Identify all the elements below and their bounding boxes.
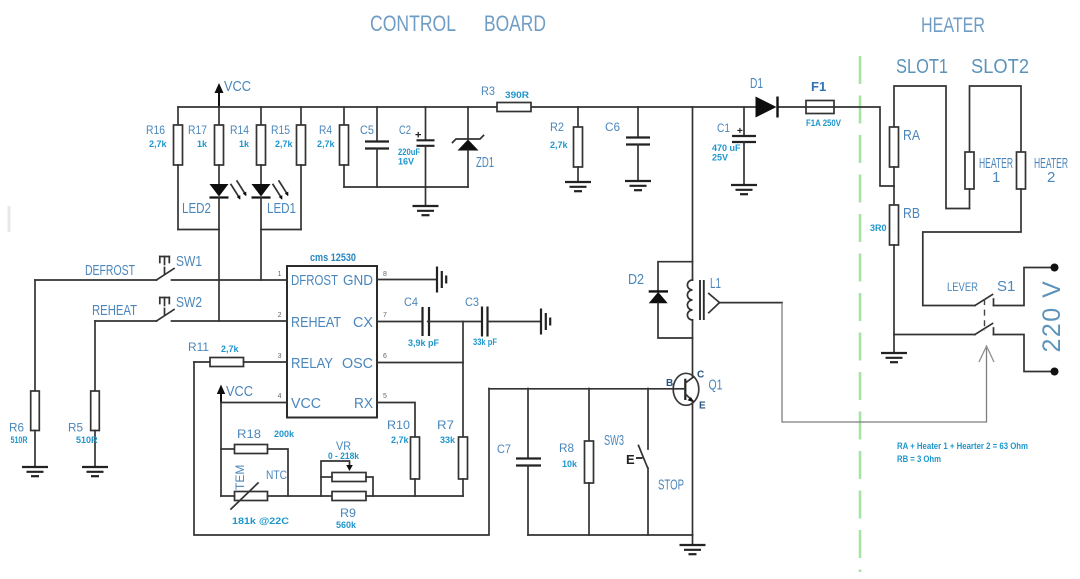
svg-text:R8: R8 — [559, 441, 574, 455]
wire main vertical bus to relay — [692, 107, 694, 280]
capacitor C6 — [605, 107, 650, 181]
IC pin label DFROST pin 1 — [278, 271, 338, 289]
potentiometer VR — [321, 439, 373, 496]
wire D2 bottom branch — [658, 303, 693, 338]
svg-text:R10: R10 — [387, 418, 410, 432]
svg-text:181k @22C: 181k @22C — [232, 516, 290, 526]
ground under R6 — [22, 467, 48, 476]
wire SW1 to DFROST pin 1 — [172, 279, 288, 281]
capacitor C4 — [404, 295, 440, 348]
capacitor C2 electrolytic — [398, 107, 435, 187]
resistor R9 — [332, 492, 366, 531]
ground under C2 rail — [413, 187, 439, 215]
svg-text:16V: 16V — [398, 157, 414, 167]
wire lower pole to terminal — [994, 335, 1053, 372]
svg-text:cms 12530: cms 12530 — [310, 252, 356, 264]
svg-text:LED1: LED1 — [267, 200, 296, 217]
capacitor C1 electrolytic — [712, 107, 756, 185]
svg-text:TEM: TEM — [233, 465, 247, 490]
arrow lever actuator — [979, 346, 994, 362]
wire filter bottom rail — [344, 186, 468, 188]
power symbol VCC top — [215, 78, 252, 107]
switch S1 lower pole — [975, 324, 994, 335]
svg-text:510R: 510R — [76, 435, 98, 445]
wire VCC stem down to sensor rail — [220, 403, 222, 497]
wire sensor rail segment 3 — [366, 495, 463, 497]
wire CX junction down to R7 — [462, 322, 464, 438]
wire F1 to heater block — [834, 107, 894, 186]
switch linkage dashed — [984, 299, 986, 331]
svg-text:RA: RA — [903, 127, 920, 144]
svg-text:REHEAT: REHEAT — [92, 302, 137, 319]
resistor R5 — [68, 321, 99, 467]
svg-text:C6: C6 — [605, 120, 620, 134]
LED LED2 — [182, 181, 246, 217]
capacitor C3 — [465, 295, 497, 347]
switch S1 upper pole — [975, 295, 994, 306]
wire D2 top branch — [658, 262, 693, 292]
diode D1 — [750, 75, 778, 118]
wire RX pin to R10 — [377, 403, 415, 438]
switch SW1 defrost — [157, 253, 203, 280]
resistor RA — [890, 127, 921, 205]
svg-text:E: E — [699, 401, 706, 412]
svg-text:SW1: SW1 — [176, 253, 202, 270]
wire VCC pin 4 — [221, 402, 287, 404]
resistor R8 — [559, 389, 594, 536]
wire RB ground branch to lever — [894, 334, 975, 336]
svg-text:C5: C5 — [360, 123, 374, 137]
terminal dot upper — [1051, 264, 1059, 272]
wire lever linkage (thin) — [782, 303, 987, 422]
resistor R16 — [146, 107, 183, 230]
svg-text:C2: C2 — [399, 123, 411, 137]
svg-text:L1: L1 — [710, 275, 721, 292]
svg-text:2: 2 — [1047, 169, 1055, 186]
svg-text:R17: R17 — [188, 123, 207, 137]
svg-text:1: 1 — [992, 169, 1000, 186]
svg-text:VCC: VCC — [226, 383, 253, 400]
thermistor NTC TEM — [231, 465, 290, 526]
ground rotated at GND pin — [437, 267, 446, 293]
wire LED2 cathode down to REHEAT net — [218, 198, 220, 322]
svg-text:CONTROL: CONTROL — [370, 11, 456, 36]
resistor HEATER 1 — [965, 152, 1013, 209]
svg-text:2,7k: 2,7k — [550, 140, 569, 150]
svg-text:VCC: VCC — [224, 78, 251, 95]
LED LED1 — [252, 181, 297, 217]
capacitor C5 — [360, 107, 389, 187]
resistor R15 — [271, 107, 306, 230]
svg-text:C1: C1 — [717, 121, 730, 135]
svg-text:R3: R3 — [481, 84, 495, 98]
svg-text:DEFROST: DEFROST — [85, 262, 135, 279]
svg-text:R4: R4 — [319, 123, 332, 137]
svg-text:6: 6 — [383, 353, 387, 360]
IC pin label RX pin 5 — [354, 393, 387, 412]
svg-text:STOP: STOP — [658, 477, 684, 494]
svg-text:2: 2 — [278, 312, 282, 319]
svg-text:LED2: LED2 — [182, 200, 211, 217]
svg-text:560k: 560k — [336, 520, 357, 530]
svg-text:0 - 218k: 0 - 218k — [328, 451, 360, 461]
IC pin label CX pin 7 — [353, 312, 387, 331]
IC pin label OSC pin 6 — [342, 353, 387, 372]
resistor R18 — [221, 427, 295, 496]
svg-text:RA + Heater 1 + Hearter 2 = 63: RA + Heater 1 + Hearter 2 = 63 Ohm — [897, 441, 1028, 451]
svg-text:S1: S1 — [997, 278, 1015, 295]
svg-text:2,7k: 2,7k — [275, 139, 294, 149]
wire bottom right rail — [528, 534, 693, 536]
svg-text:DFROST: DFROST — [291, 272, 338, 289]
wire SLOT1 top rail — [894, 86, 970, 209]
svg-text:8: 8 — [383, 271, 387, 278]
resistor R3 — [481, 84, 531, 112]
relay contact armature — [709, 294, 720, 313]
resistor R10 — [387, 418, 420, 496]
ground under RB — [881, 335, 907, 363]
ground under C1 — [731, 185, 757, 194]
wire DEFROST left to SW1 — [35, 279, 157, 281]
svg-text:D1: D1 — [750, 75, 763, 92]
fuse F1 — [806, 79, 841, 128]
svg-text:VCC: VCC — [291, 395, 321, 412]
svg-text:NTC: NTC — [266, 468, 287, 482]
svg-text:25V: 25V — [712, 153, 728, 163]
wire C3 to ground — [488, 321, 542, 323]
svg-text:LEVER: LEVER — [947, 280, 978, 294]
svg-text:10k: 10k — [562, 459, 578, 469]
svg-text:GND: GND — [343, 272, 373, 289]
svg-text:220 V: 220 V — [1038, 280, 1066, 353]
svg-text:Q1: Q1 — [709, 377, 723, 394]
svg-text:OSC: OSC — [342, 355, 373, 372]
wire Q1 base line — [489, 388, 673, 390]
svg-text:R5: R5 — [68, 421, 83, 435]
svg-text:C: C — [697, 370, 704, 381]
svg-text:390R: 390R — [505, 90, 530, 100]
resistor R17 — [188, 107, 224, 184]
wire R16 bottom to LED2 branch — [178, 229, 219, 231]
svg-text:F1A 250V: F1A 250V — [806, 118, 841, 128]
svg-text:SLOT1: SLOT1 — [896, 56, 948, 78]
IC U1 cms 12530 — [287, 252, 377, 418]
svg-text:R15: R15 — [271, 123, 290, 137]
svg-text:RX: RX — [354, 395, 373, 412]
svg-text:3R0: 3R0 — [870, 223, 887, 233]
wire OSC pin to R7 branch — [377, 362, 463, 364]
svg-text:RB: RB — [903, 205, 920, 222]
wire Q1 emitter down — [692, 402, 694, 536]
resistor R14 — [230, 107, 266, 184]
power symbol VCC mid — [217, 383, 253, 403]
ground main bottom — [680, 535, 706, 554]
svg-text:2,7k: 2,7k — [391, 435, 410, 445]
svg-text:SLOT2: SLOT2 — [971, 56, 1029, 78]
svg-text:C4: C4 — [404, 295, 418, 309]
wire sensor rail segment 2 — [268, 495, 333, 497]
svg-text:220uF: 220uF — [398, 147, 420, 157]
svg-text:R18: R18 — [237, 427, 261, 441]
svg-text:RB = 3 Ohm: RB = 3 Ohm — [897, 454, 941, 464]
svg-text:E: E — [626, 452, 635, 467]
svg-text:5: 5 — [383, 393, 387, 400]
svg-text:R2: R2 — [550, 120, 564, 134]
svg-text:2,7k: 2,7k — [221, 344, 240, 354]
svg-text:RELAY: RELAY — [291, 355, 333, 372]
wire VCC top bus — [178, 106, 497, 108]
svg-text:BOARD: BOARD — [484, 11, 546, 36]
svg-text:C3: C3 — [465, 295, 479, 309]
svg-text:SW2: SW2 — [176, 294, 202, 311]
resistor HEATER 2 — [1017, 152, 1069, 189]
svg-text:510R: 510R — [11, 435, 28, 445]
IC pin label GND pin 8 — [343, 271, 387, 289]
resistor R6 — [9, 280, 39, 467]
wire upper pole to terminal — [994, 268, 1053, 306]
svg-text:HEATER: HEATER — [921, 14, 985, 37]
svg-text:R11: R11 — [188, 340, 209, 354]
zener diode ZD1 — [453, 107, 495, 187]
wire GND pin to ground — [377, 279, 437, 281]
svg-text:REHEAT: REHEAT — [291, 314, 341, 331]
svg-text:+: + — [737, 126, 743, 137]
svg-text:B: B — [666, 378, 673, 389]
wire sensor rail segment 1 — [221, 495, 235, 497]
wire SW2 to REHEAT pin 2 — [172, 320, 288, 322]
resistor R7 — [437, 418, 468, 496]
svg-text:C7: C7 — [497, 442, 511, 456]
svg-text:33k pF: 33k pF — [473, 337, 497, 347]
svg-text:3: 3 — [278, 353, 282, 360]
ground rotated after C3 — [541, 309, 550, 335]
svg-text:R7: R7 — [437, 418, 454, 432]
wire REHEAT left to SW2 — [95, 320, 157, 322]
board boundary dashed green line — [859, 56, 862, 572]
svg-text:+: + — [415, 130, 421, 142]
IC pin label RELAY pin 3 — [278, 353, 333, 372]
resistor R2 — [550, 107, 583, 182]
wire base line left drop — [194, 362, 489, 535]
terminal dot lower — [1051, 368, 1059, 376]
wire bus R3 to D1 — [531, 106, 756, 108]
svg-text:D2: D2 — [628, 271, 644, 288]
note resistance values — [897, 441, 1028, 464]
IC pin label VCC pin 4 — [278, 393, 322, 412]
wire C4 to C3 — [428, 321, 482, 323]
switch SW2 reheat — [157, 294, 203, 321]
ground under R2 — [565, 182, 591, 191]
wire D1 to F1 — [778, 106, 806, 108]
diode D2 — [628, 271, 668, 303]
svg-text:1k: 1k — [197, 139, 208, 149]
wire SLOT2 top rail — [970, 86, 1022, 152]
resistor R11 — [188, 340, 287, 367]
svg-text:4: 4 — [278, 393, 282, 400]
svg-text:F1: F1 — [811, 79, 826, 94]
svg-text:200k: 200k — [274, 429, 295, 439]
IC pin label REHEAT pin 2 — [278, 312, 341, 331]
wire relay coil to Q1 collector — [692, 320, 694, 378]
svg-text:3,9k pF: 3,9k pF — [408, 338, 440, 348]
svg-text:ZD1: ZD1 — [476, 154, 494, 171]
ground under R5 — [82, 467, 108, 476]
svg-text:1: 1 — [278, 271, 282, 278]
svg-text:2,7k: 2,7k — [317, 139, 336, 149]
wire LED1 cathode down to DFROST net — [260, 198, 262, 281]
svg-text:R9: R9 — [340, 506, 356, 520]
svg-text:CX: CX — [353, 314, 373, 331]
faint mark left edge — [8, 206, 11, 232]
svg-text:7: 7 — [383, 312, 387, 319]
capacitor C7 — [497, 389, 541, 536]
switch SW3 stop — [604, 389, 684, 536]
wire CX pin to C4 — [377, 321, 422, 323]
resistor RB — [870, 205, 920, 335]
svg-text:2,7k: 2,7k — [149, 139, 168, 149]
resistor R4 — [317, 107, 349, 187]
svg-text:SW3: SW3 — [604, 432, 624, 449]
title CONTROL BOARD — [370, 11, 546, 36]
svg-text:1k: 1k — [239, 139, 250, 149]
relay coil L1 — [687, 275, 721, 320]
wire relay contact output — [720, 302, 783, 304]
ground under C6 — [625, 181, 651, 190]
svg-text:R14: R14 — [230, 123, 249, 137]
svg-text:R16: R16 — [146, 123, 165, 137]
transistor Q1 — [666, 370, 723, 412]
wire R15 bottom to LED1 branch — [261, 229, 301, 231]
svg-text:33k: 33k — [440, 435, 456, 445]
svg-text:R6: R6 — [9, 421, 24, 435]
svg-text:470 uF: 470 uF — [712, 143, 741, 153]
wire HEATER2 bottom to lever top contact — [923, 189, 1021, 306]
